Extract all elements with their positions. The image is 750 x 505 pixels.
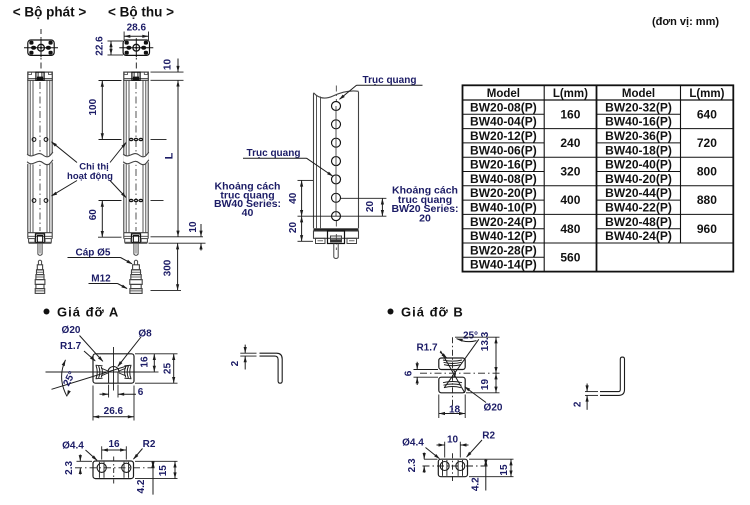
receiver centerline <box>135 58 137 70</box>
svg-text:< Bộ thu >: < Bộ thu > <box>108 5 174 20</box>
bracket A centerlines <box>113 347 115 391</box>
bracket A bottom view holes <box>97 463 106 472</box>
svg-text:40: 40 <box>288 192 299 204</box>
svg-text:BW20-36(P): BW20-36(P) <box>605 129 672 143</box>
svg-text:Model: Model <box>622 88 655 100</box>
dimension 13.3 bracket B <box>455 336 500 338</box>
svg-text:BW40-12(P): BW40-12(P) <box>470 229 537 243</box>
svg-text:BW40-18(P): BW40-18(P) <box>605 143 672 157</box>
svg-text:800: 800 <box>697 165 717 179</box>
svg-text:2.3: 2.3 <box>407 458 418 472</box>
bracket B bottom view centerlines <box>452 453 454 481</box>
dimension 26.6 bracket A <box>92 386 94 421</box>
section title Gia do A <box>44 309 50 315</box>
dimension 19 bracket B <box>466 392 500 394</box>
svg-text:BW40-16(P): BW40-16(P) <box>605 115 672 129</box>
bracket A slot lines <box>108 372 110 383</box>
svg-text:Ø20: Ø20 <box>484 403 503 414</box>
bracket A bottom view body <box>93 461 134 479</box>
dimension 4.2 bracket A bottom <box>152 461 154 494</box>
svg-text:20: 20 <box>419 213 431 225</box>
bracket B X lines and 25 degree <box>444 339 479 388</box>
svg-text:18: 18 <box>449 405 461 416</box>
svg-text:BW40-04(P): BW40-04(P) <box>470 115 537 129</box>
svg-text:Giá đỡ B: Giá đỡ B <box>401 305 464 320</box>
bracket A L-profile <box>260 353 283 383</box>
svg-text:4.2: 4.2 <box>471 477 482 491</box>
svg-text:Trục quang: Trục quang <box>247 148 301 159</box>
dimension 16 bracket A <box>135 353 178 355</box>
svg-text:6: 6 <box>404 370 415 376</box>
svg-text:6: 6 <box>138 387 144 398</box>
bracket A front body <box>93 354 134 383</box>
svg-text:10: 10 <box>447 435 459 446</box>
dimension 2 bracket A profile <box>240 352 256 354</box>
svg-text:BW20-16(P): BW20-16(P) <box>470 158 537 172</box>
optical axis bar cable <box>333 244 335 258</box>
dimension 16 bracket A bottom <box>101 446 103 459</box>
dimension 40 axis pitch <box>298 179 314 181</box>
dimension 18 bracket B <box>438 395 440 419</box>
bracket A center dome and neck <box>108 367 119 372</box>
svg-text:R2: R2 <box>143 439 156 450</box>
svg-text:BW20-48(P): BW20-48(P) <box>605 215 672 229</box>
svg-text:10: 10 <box>163 59 174 71</box>
leader to receiver upper LED <box>110 143 126 163</box>
svg-text:60: 60 <box>88 209 99 221</box>
svg-text:BW40-06(P): BW40-06(P) <box>470 143 537 157</box>
dimension 15 bracket B bottom <box>469 458 514 460</box>
svg-text:10: 10 <box>188 221 199 233</box>
extension lines top right <box>151 71 184 73</box>
svg-text:4.2: 4.2 <box>136 479 147 493</box>
svg-text:2.3: 2.3 <box>64 461 75 475</box>
dimension 4.2 bracket B bottom <box>485 459 487 490</box>
svg-text:hoạt động: hoạt động <box>67 171 113 182</box>
dimension 28.6 width of head <box>123 32 125 41</box>
svg-text:L(mm): L(mm) <box>689 88 724 100</box>
section title Gia do B <box>388 309 394 315</box>
svg-text:BW40-24(P): BW40-24(P) <box>605 229 672 243</box>
svg-text:2: 2 <box>230 360 241 366</box>
svg-text:BW20-12(P): BW20-12(P) <box>470 129 537 143</box>
bracket B centerlines <box>452 337 454 412</box>
svg-text:160: 160 <box>560 107 580 121</box>
dimension 6 bracket B <box>414 369 439 371</box>
svg-text:(đơn vị: mm): (đơn vị: mm) <box>652 16 719 28</box>
svg-text:Cáp Ø5: Cáp Ø5 <box>75 248 110 259</box>
svg-text:40: 40 <box>242 207 254 219</box>
svg-text:BW20-44(P): BW20-44(P) <box>605 186 672 200</box>
bracket B bottom view body <box>438 459 467 477</box>
svg-text:BW20-08(P): BW20-08(P) <box>470 100 537 114</box>
svg-text:BW40-14(P): BW40-14(P) <box>470 258 537 272</box>
svg-text:480: 480 <box>560 222 580 236</box>
leader to receiver lower LED <box>110 181 126 198</box>
dimension 15 bracket A bottom <box>135 460 178 462</box>
bracket B bottom view holes <box>440 462 449 471</box>
svg-text:25: 25 <box>163 363 174 375</box>
svg-text:BW20-24(P): BW20-24(P) <box>470 215 537 229</box>
bracket B saddle arcs bottom tab <box>443 382 462 383</box>
svg-text:100: 100 <box>88 98 99 115</box>
svg-text:BW20-32(P): BW20-32(P) <box>605 100 672 114</box>
svg-text:640: 640 <box>697 107 717 121</box>
svg-text:240: 240 <box>560 136 580 150</box>
svg-text:BW40-10(P): BW40-10(P) <box>470 201 537 215</box>
svg-text:20: 20 <box>365 201 376 213</box>
svg-text:M12: M12 <box>91 274 111 285</box>
svg-text:Model: Model <box>487 88 520 100</box>
svg-text:L(mm): L(mm) <box>553 88 588 100</box>
bracket B saddle arcs top tab <box>443 360 462 361</box>
receiver sensor bar <box>123 80 125 232</box>
dimension 25 bracket A <box>135 382 178 384</box>
bracket A bottom view centerlines <box>113 457 115 484</box>
leader to transmitter upper LED <box>52 142 78 163</box>
svg-text:15: 15 <box>158 465 169 477</box>
svg-text:25°: 25° <box>463 330 478 341</box>
svg-text:Ø20: Ø20 <box>62 325 81 336</box>
dimension 2.3 bracket A bottom <box>77 460 93 462</box>
dimension 10 top <box>177 59 179 73</box>
svg-text:26.6: 26.6 <box>104 406 124 417</box>
svg-text:22.6: 22.6 <box>95 36 106 56</box>
transmitter top view cross-section <box>28 40 54 55</box>
dimension 100 <box>99 80 122 82</box>
svg-text:BW40-20(P): BW40-20(P) <box>605 172 672 186</box>
extension lines bottom right <box>151 236 204 238</box>
LED row extension lines right of receiver <box>151 139 167 141</box>
model table <box>463 85 734 271</box>
receiver top view cross-section <box>123 40 149 55</box>
optical axis holes <box>332 102 341 111</box>
dimension 20 right <box>340 197 386 199</box>
svg-text:880: 880 <box>697 193 717 207</box>
svg-text:28.6: 28.6 <box>127 23 147 34</box>
dimension 300 cable length <box>177 243 179 290</box>
svg-text:L: L <box>164 152 176 159</box>
optical axis bar body <box>314 91 359 98</box>
transmitter centerline <box>40 29 42 38</box>
svg-text:320: 320 <box>560 165 580 179</box>
bracket A left saddle arcs <box>96 365 97 378</box>
svg-text:R1.7: R1.7 <box>416 343 438 354</box>
bracket B L-profile <box>600 357 625 395</box>
dimension 10 bracket B bottom <box>444 442 446 458</box>
optical axis bar bottom cap <box>314 228 359 231</box>
leader to transmitter lower LED <box>52 181 78 196</box>
bracket B center dome <box>454 370 456 377</box>
dimension 20 lower left <box>298 240 314 242</box>
svg-text:16: 16 <box>108 439 120 450</box>
bracket A right saddle arcs <box>130 365 131 378</box>
svg-text:20: 20 <box>288 222 299 234</box>
dimension 6 bracket A <box>100 393 109 395</box>
svg-text:R2: R2 <box>482 430 495 441</box>
dimension 10 bottom <box>200 224 202 237</box>
svg-text:400: 400 <box>560 193 580 207</box>
svg-text:720: 720 <box>697 136 717 150</box>
svg-text:BW20-28(P): BW20-28(P) <box>470 243 537 257</box>
svg-text:R1.7: R1.7 <box>60 341 82 352</box>
transmitter sensor bar <box>27 80 29 232</box>
svg-text:BW20-40(P): BW20-40(P) <box>605 158 672 172</box>
svg-text:960: 960 <box>697 222 717 236</box>
dimension 2 bracket B profile <box>585 391 598 393</box>
svg-text:Trục quang: Trục quang <box>363 75 417 86</box>
svg-text:2: 2 <box>573 401 584 407</box>
svg-text:< Bộ phát >: < Bộ phát > <box>13 5 87 20</box>
svg-text:300: 300 <box>163 259 174 276</box>
svg-text:13.3: 13.3 <box>480 331 491 351</box>
svg-text:16: 16 <box>140 356 151 368</box>
svg-text:15: 15 <box>499 464 510 476</box>
svg-text:BW20-20(P): BW20-20(P) <box>470 186 537 200</box>
dimension 60 <box>99 200 122 202</box>
svg-text:Giá đỡ A: Giá đỡ A <box>57 305 119 320</box>
svg-text:19: 19 <box>480 379 491 391</box>
svg-text:Ø4.4: Ø4.4 <box>402 438 424 449</box>
svg-text:560: 560 <box>560 250 580 264</box>
dimension 2.3 bracket B bottom <box>424 458 438 460</box>
svg-text:BW40-08(P): BW40-08(P) <box>470 172 537 186</box>
bracket B front body tabs <box>439 358 465 370</box>
svg-text:Ø4.4: Ø4.4 <box>62 440 84 451</box>
dimension L overall <box>177 80 179 237</box>
dimension 22.6 height of head <box>108 40 124 42</box>
svg-text:BW40-22(P): BW40-22(P) <box>605 201 672 215</box>
bracket A 25 degree line and arc <box>52 365 130 389</box>
